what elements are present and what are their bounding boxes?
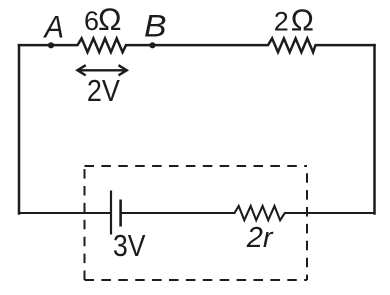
svg-text:2V: 2V	[87, 73, 120, 108]
svg-text:2Ω: 2Ω	[274, 3, 314, 38]
svg-text:A: A	[43, 8, 64, 44]
svg-text:B: B	[144, 8, 167, 44]
svg-text:6Ω: 6Ω	[84, 1, 122, 37]
svg-text:2r: 2r	[246, 222, 274, 254]
svg-text:3V: 3V	[113, 228, 146, 263]
